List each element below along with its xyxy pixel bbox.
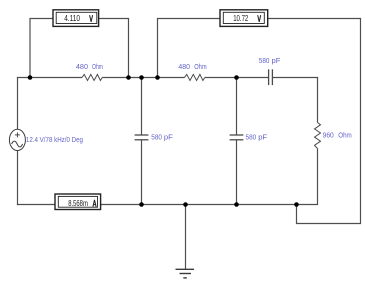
- svg-text:480: 480: [178, 62, 190, 71]
- wire left vertical above source: [17, 77, 19, 130]
- ammeter U3 8.568m A: [55, 194, 101, 210]
- wire C3 to right corner: [273, 77, 318, 79]
- svg-text:Ohm: Ohm: [194, 62, 206, 71]
- wire C2 bottom: [236, 140, 238, 205]
- capacitor C3 580 pF series: [269, 69, 273, 85]
- node R3 bottom / VM2 right: [294, 202, 299, 207]
- resistor R1 480 Ohm: [82, 74, 102, 80]
- U3 unit A: [93, 200, 96, 207]
- wire VM2 right down to bottom: [268, 19, 361, 224]
- svg-text:8.568m: 8.568m: [68, 198, 88, 208]
- wire VM1 right riser: [99, 19, 129, 78]
- wire R3 top connection: [317, 77, 319, 123]
- svg-text:Ohm: Ohm: [338, 131, 352, 140]
- wire C1 top: [141, 78, 143, 136]
- ground: [176, 269, 195, 278]
- wire R3 bottom connection: [297, 149, 318, 205]
- wire top rail mid segment: [102, 77, 184, 79]
- voltmeter U2 10.72 V: [220, 10, 268, 27]
- wire bottom rail right of ammeter: [101, 204, 297, 206]
- AC source V1: [9, 129, 25, 150]
- node ground junction: [183, 202, 188, 207]
- wire top rail left segment: [17, 77, 82, 79]
- svg-text:pF: pF: [164, 132, 173, 141]
- svg-text:580: 580: [246, 132, 257, 141]
- node junction dots: [28, 75, 299, 207]
- capacitor C2 580 pF: [230, 135, 244, 140]
- svg-text:4.110: 4.110: [64, 13, 80, 23]
- svg-text:10.72: 10.72: [233, 13, 248, 23]
- wire left vertical below source: [17, 150, 19, 205]
- wire bottom rail left of ammeter: [17, 204, 55, 206]
- node C2 top: [234, 75, 239, 80]
- svg-text:960: 960: [323, 131, 334, 140]
- svg-text:580: 580: [151, 132, 162, 141]
- svg-text:480: 480: [76, 62, 88, 71]
- svg-text:580: 580: [259, 56, 270, 65]
- resistor R3 960 Ohm vertical: [315, 123, 321, 149]
- resistor R2 480 Ohm: [185, 74, 205, 80]
- wire ground stem: [185, 205, 187, 270]
- wire VM1 left riser: [30, 19, 53, 78]
- capacitor C1 580 pF: [135, 135, 149, 140]
- U2 unit V: [258, 15, 261, 22]
- wire C1 bottom: [141, 140, 143, 205]
- svg-text:12.4 V/78 kHz/0 Deg: 12.4 V/78 kHz/0 Deg: [26, 135, 83, 144]
- node VM1 left at top rail: [28, 75, 33, 80]
- node VM2 left at top rail: [155, 75, 160, 80]
- node C1 bottom: [139, 202, 144, 207]
- wire C2 top: [236, 78, 238, 136]
- voltmeter U1 4.110 V: [53, 10, 99, 27]
- node C2 bottom: [234, 202, 239, 207]
- svg-text:pF: pF: [258, 132, 267, 141]
- wire VM2 left riser: [158, 19, 221, 78]
- node C1 top: [139, 75, 144, 80]
- svg-text:Ohm: Ohm: [92, 62, 103, 71]
- node VM1 right at top rail: [126, 75, 131, 80]
- svg-text:pF: pF: [272, 56, 281, 65]
- wire top rail right segment to C3: [205, 77, 268, 79]
- U1 unit V: [90, 15, 93, 22]
